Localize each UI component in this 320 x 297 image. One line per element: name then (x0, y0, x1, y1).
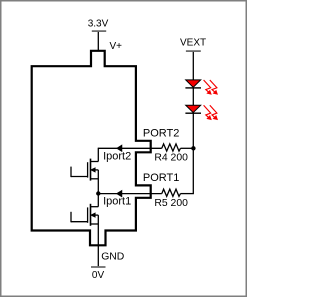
svg-text:0V: 0V (92, 270, 105, 281)
svg-text:3.3V: 3.3V (88, 19, 109, 30)
svg-text:R4 200: R4 200 (154, 153, 188, 164)
wire PORT1 pin net (98, 193, 162, 195)
border frame (1, 1, 247, 297)
supply rail 3.3V bar (92, 30, 106, 32)
svg-text:VEXT: VEXT (180, 38, 206, 49)
node A junction dot (191, 146, 195, 150)
svg-text:PORT2: PORT2 (143, 128, 179, 140)
wire LED cathode line down to node A and R5 (192, 113, 194, 193)
wire VEXT to LED D1 (192, 52, 194, 80)
svg-text:V+: V+ (110, 41, 123, 52)
current arrow Iport2 (117, 145, 122, 151)
transistor Q1 (port1 NMOS) (71, 204, 98, 267)
wire 3.3V to V+ pin (97, 32, 99, 50)
wire R5 to LED line corner (181, 193, 194, 195)
wire R4 to node A (181, 147, 194, 149)
resistor R5 (162, 189, 181, 196)
svg-text:PORT1: PORT1 (143, 172, 179, 184)
svg-text:R5 200: R5 200 (154, 198, 188, 209)
wire node B to Q1 drain (97, 194, 99, 207)
svg-text:Iport1: Iport1 (103, 196, 131, 208)
wire PORT2 pin net (98, 147, 162, 149)
IC box outline U1 (microcontroller) with pin tabs (32, 51, 151, 246)
LED D2 (185, 105, 201, 113)
node B junction dot (96, 191, 100, 195)
supply rail VEXT bar (186, 50, 201, 52)
ground rail 0V bar (91, 266, 106, 268)
svg-text:Iport2: Iport2 (103, 150, 131, 162)
LED D1 (185, 80, 201, 88)
LED D2 emission arrows (204, 105, 218, 119)
LED D1 emission arrows (204, 80, 218, 94)
svg-text:GND: GND (101, 252, 124, 263)
current arrow Iport1 (117, 191, 122, 197)
resistor R4 (162, 144, 181, 151)
transistor Q2 (port2 NMOS) (71, 159, 98, 194)
wire PORT2 to Q2 drain (97, 148, 99, 162)
wire D1 to D2 (192, 88, 194, 105)
